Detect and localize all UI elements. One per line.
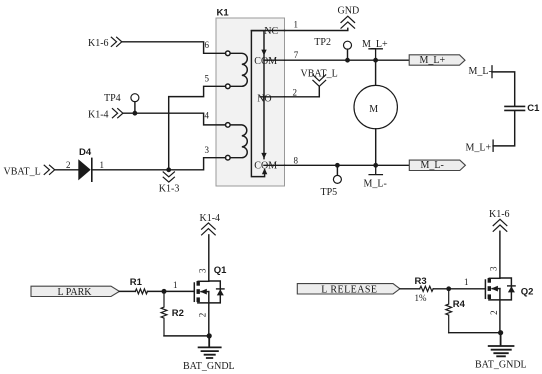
svg-text:3: 3: [198, 268, 208, 273]
Q1 drain link: [198, 280, 209, 282]
svg-text:D4: D4: [79, 147, 92, 158]
wire R2 to ground node: [164, 335, 209, 337]
junction R3/R4: [446, 286, 451, 291]
junction motor bottom: [373, 163, 378, 168]
power arrow K1-3 (down): [163, 172, 174, 182]
diode D4 cathode bar: [91, 158, 93, 181]
svg-text:NC: NC: [264, 26, 278, 37]
relay switch arrow to COM pin8: [261, 153, 266, 159]
svg-text:TP5: TP5: [321, 187, 338, 198]
svg-text:1%: 1%: [415, 293, 428, 303]
svg-text:GND: GND: [338, 6, 360, 17]
wire K1-6 to Q2 drain: [499, 231, 501, 278]
test point TP5 circle: [333, 175, 341, 183]
wire TP2 stem: [347, 49, 349, 60]
svg-text:TP2: TP2: [314, 37, 331, 48]
svg-text:R3: R3: [415, 276, 427, 287]
relay K1 body: [216, 18, 285, 186]
wire pin 8 to M_L- flag: [285, 164, 410, 166]
test point TP2 circle: [344, 41, 352, 49]
wire capacitor bottom: [493, 111, 515, 146]
junction motor top: [373, 58, 378, 63]
resistor R1: [135, 289, 147, 294]
svg-text:Q1: Q1: [214, 265, 227, 276]
svg-text:R2: R2: [172, 308, 184, 319]
svg-text:K1-6: K1-6: [88, 38, 109, 49]
svg-text:5: 5: [205, 73, 210, 83]
capacitor C1 plates: [505, 106, 525, 110]
Q2 channel contacts: [488, 278, 491, 299]
power arrow K1-6 (up): [493, 219, 507, 231]
Q1 source arrowhead: [200, 289, 207, 295]
ground BAT_GNDL (left): [199, 336, 221, 358]
junction TP4/K1-4: [133, 111, 138, 116]
connector chevrons K1-6: [111, 37, 122, 46]
power symbol VBAT_L chevrons (down): [313, 75, 326, 86]
svg-text:NO: NO: [257, 94, 271, 105]
relay switch common bar: [263, 31, 265, 159]
port flag M_L-: [409, 160, 465, 170]
svg-text:M_L+: M_L+: [420, 55, 446, 66]
svg-text:BAT_GNDL: BAT_GNDL: [475, 359, 527, 370]
resistor R2: [161, 291, 167, 336]
wire pin 7 interior (COM top): [264, 59, 285, 61]
svg-text:3: 3: [205, 145, 210, 155]
svg-text:L RELEASE: L RELEASE: [321, 285, 377, 296]
svg-text:K1: K1: [217, 7, 230, 18]
junction R1/R2: [162, 289, 167, 294]
relay NC bracket wire: [251, 31, 264, 177]
svg-text:M_L-: M_L-: [469, 66, 492, 77]
svg-text:3: 3: [488, 266, 498, 271]
svg-text:7: 7: [294, 50, 299, 60]
Q1 source arrow line: [201, 291, 209, 293]
Q2 body diode triangle: [508, 286, 515, 292]
Q1 body diode triangle: [217, 289, 224, 295]
svg-text:M_L-: M_L-: [364, 178, 387, 189]
Q2 body diode bar: [508, 285, 515, 287]
svg-text:C1: C1: [527, 103, 540, 114]
port flag L PARK: [31, 286, 119, 296]
wire VBAT_L to diode: [55, 169, 79, 171]
connector chevrons VBAT_L: [44, 165, 55, 174]
wire TP5 stem: [336, 165, 338, 175]
svg-text:2: 2: [489, 310, 499, 315]
wire diode to pin 3: [92, 158, 226, 170]
svg-text:R4: R4: [453, 299, 466, 310]
svg-text:K1-4: K1-4: [200, 213, 221, 224]
wire R1 to junction: [148, 290, 195, 292]
svg-text:BAT_GNDL: BAT_GNDL: [183, 361, 235, 372]
wire capacitor top: [492, 72, 515, 106]
Q1 source wire: [208, 292, 210, 336]
wire flag to R1: [119, 290, 135, 292]
net marker M_L+ (top): [369, 49, 382, 60]
svg-text:K1-6: K1-6: [489, 209, 510, 220]
Q2 source arrow line: [492, 288, 500, 290]
diode D4 triangle: [78, 159, 90, 180]
Q2 source arrowhead: [491, 286, 498, 292]
pin 4 terminal circle: [226, 123, 231, 128]
svg-text:M_L+: M_L+: [362, 39, 388, 50]
wire pin 7 to M_L+ flag: [285, 59, 410, 61]
svg-text:M_L-: M_L-: [421, 160, 444, 171]
Q2 body diode branch: [489, 278, 512, 300]
svg-text:8: 8: [294, 155, 299, 165]
junction TP5: [335, 163, 340, 168]
connector chevrons K1-4: [112, 109, 123, 118]
junction TP2: [345, 58, 350, 63]
svg-text:R1: R1: [130, 277, 143, 288]
svg-text:1: 1: [100, 160, 105, 170]
Q1 channel contacts: [197, 281, 200, 302]
port flag M_L+: [409, 55, 465, 65]
svg-text:M: M: [369, 104, 378, 115]
wire K1-4 to pin 4: [123, 113, 226, 125]
junction node K1-3: [166, 167, 171, 172]
ground BAT_GNDL (right): [489, 333, 514, 357]
relay coil L1 (pins 6-5): [230, 53, 247, 86]
wire motor top: [375, 60, 377, 85]
net marker M_L- (right top): [491, 66, 493, 78]
wire motor bottom: [375, 129, 377, 166]
net marker M_L+ (right bottom): [492, 140, 494, 151]
Q1 gate bar: [193, 283, 195, 301]
svg-text:1: 1: [464, 277, 469, 287]
relay coil L2 (pins 4-3): [230, 125, 247, 158]
wire pin 2 to VBAT_L: [285, 87, 320, 97]
junction Q1 source/ground: [207, 333, 212, 338]
wire pin 5 to node A: [169, 86, 226, 170]
svg-text:VBAT_L: VBAT_L: [301, 68, 338, 79]
relay switch arrow to COM pin7: [261, 50, 266, 56]
svg-text:Q2: Q2: [521, 286, 534, 297]
Q2 source wire: [499, 289, 501, 333]
svg-text:L PARK: L PARK: [58, 287, 93, 298]
svg-text:4: 4: [205, 110, 210, 120]
wire pin 1 interior (NC): [251, 30, 284, 32]
svg-text:2: 2: [293, 87, 298, 97]
Q1 body diode branch: [198, 281, 221, 303]
pin 3 terminal circle: [226, 155, 231, 160]
svg-text:K1-3: K1-3: [159, 184, 180, 195]
wire K1-4 to Q1 drain: [208, 235, 210, 281]
wire pin 8 interior (COM bottom): [264, 164, 285, 166]
svg-text:COM: COM: [254, 56, 277, 67]
wire pin 1 to GND: [285, 28, 348, 30]
pin 6 terminal circle: [226, 51, 231, 56]
wire TP4 stem: [134, 102, 136, 114]
net marker M_L- (bottom): [369, 165, 382, 174]
svg-text:VBAT_L: VBAT_L: [4, 166, 41, 177]
Q1 body diode bar: [217, 288, 224, 290]
svg-text:COM: COM: [254, 160, 277, 171]
wire flag to R3: [400, 288, 420, 290]
relay bracket up arrow: [262, 168, 267, 174]
svg-text:2: 2: [198, 313, 208, 318]
wire R4 to ground node: [449, 332, 501, 334]
power arrow K1-4 (up): [202, 223, 216, 235]
svg-text:K1-4: K1-4: [88, 109, 109, 120]
wire R3 to junction: [433, 288, 485, 290]
port flag L RELEASE: [297, 284, 400, 294]
pin 5 terminal circle: [226, 84, 231, 89]
resistor R4: [446, 289, 452, 333]
svg-text:1: 1: [294, 20, 299, 30]
test point TP4 circle: [131, 94, 139, 102]
svg-text:6: 6: [205, 40, 210, 50]
junction Q2 source/ground: [498, 330, 503, 335]
wire K1-6 to pin 6: [122, 42, 226, 54]
Q2 gate bar: [484, 280, 486, 298]
resistor R3: [420, 286, 434, 291]
svg-text:TP4: TP4: [104, 93, 121, 104]
svg-text:2: 2: [66, 160, 71, 170]
motor M circle: [354, 85, 397, 128]
Q2 drain link: [489, 277, 500, 279]
svg-text:M_L+: M_L+: [466, 143, 492, 154]
wire pin 2 interior (NO): [260, 96, 285, 98]
power symbol GND chevrons: [341, 16, 355, 28]
svg-text:1: 1: [173, 280, 178, 290]
